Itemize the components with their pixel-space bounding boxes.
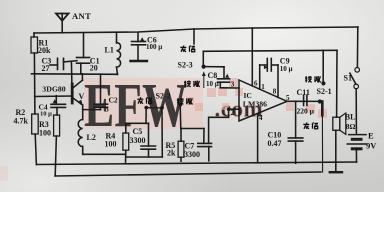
svg-text:E: E xyxy=(368,130,374,140)
svg-text:8Ω: 8Ω xyxy=(346,122,356,131)
wire R5 C7 top link xyxy=(181,128,204,130)
svg-text:0.47: 0.47 xyxy=(268,139,282,148)
svg-text:3: 3 xyxy=(105,105,109,114)
capacitor C11 xyxy=(304,95,307,105)
svg-text:20: 20 xyxy=(90,64,98,73)
op-amp U1 LM386 xyxy=(239,80,287,121)
transistor V 3DG80 xyxy=(72,80,83,105)
capacitor C10 xyxy=(288,101,303,163)
label transmit S2-3 xyxy=(180,46,195,52)
wire R3 to rail2 xyxy=(55,136,56,176)
wire S2-2 receive contact down xyxy=(179,105,182,129)
wire collector node horizontal xyxy=(32,73,118,76)
capacitor C5 xyxy=(141,123,156,157)
wire pin6 xyxy=(251,28,253,86)
capacitor C7 xyxy=(198,129,212,161)
label receive S2-3 xyxy=(184,81,200,87)
svg-text:LM386: LM386 xyxy=(243,99,267,108)
svg-text:L1: L1 xyxy=(105,46,114,55)
svg-text:5: 5 xyxy=(286,94,290,102)
capacitor C4 xyxy=(51,96,66,115)
svg-text:S2-2: S2-2 xyxy=(156,92,171,101)
wire pin8 xyxy=(277,65,279,97)
wire collector up xyxy=(81,74,83,80)
svg-text:C10: C10 xyxy=(268,130,282,139)
wire pin1 stub xyxy=(259,65,261,89)
inductor L1 xyxy=(117,33,121,75)
svg-text:C8: C8 xyxy=(208,71,218,80)
wire receive bus xyxy=(203,50,337,51)
wire bottom rail 1 xyxy=(36,162,356,165)
svg-text:100: 100 xyxy=(39,129,51,138)
wire left frame upper xyxy=(33,33,35,37)
svg-text:220 µ: 220 µ xyxy=(297,106,315,115)
svg-text:27: 27 xyxy=(42,64,50,73)
svg-text:2: 2 xyxy=(231,109,235,117)
inductor L2 xyxy=(78,110,83,155)
wire pin2 xyxy=(209,107,239,143)
svg-text:10 µ: 10 µ xyxy=(40,111,52,118)
wire emitter node xyxy=(83,105,101,110)
battery E xyxy=(347,135,366,163)
wire speaker top xyxy=(336,50,338,117)
antenna ANT xyxy=(56,14,69,33)
label receive S2-2 xyxy=(177,98,193,104)
svg-text:C2: C2 xyxy=(109,96,118,105)
svg-text:4.7k: 4.7k xyxy=(14,117,29,126)
svg-text:10 µ: 10 µ xyxy=(206,80,219,88)
wire L2 to R4 xyxy=(83,153,126,155)
label transmit S2-1 xyxy=(303,123,318,129)
switch S2-3 transmit stub xyxy=(193,29,195,44)
svg-text:8: 8 xyxy=(273,88,277,96)
svg-text:6: 6 xyxy=(254,80,258,88)
svg-text:BL: BL xyxy=(345,113,356,122)
wire C3 to base bar xyxy=(70,62,73,85)
wire pin4 xyxy=(257,113,259,162)
svg-text:2k: 2k xyxy=(167,149,176,158)
capacitor C6 with ground xyxy=(131,33,148,61)
capacitor C2 xyxy=(94,74,108,109)
svg-text:C11: C11 xyxy=(297,88,310,97)
switch S2-1 xyxy=(318,50,326,172)
svg-text:S2-3: S2-3 xyxy=(178,60,193,69)
capacitor C9 xyxy=(260,59,278,72)
svg-text:3300: 3300 xyxy=(130,136,146,145)
switch S1 xyxy=(350,27,360,134)
wire top supply rail xyxy=(34,27,358,33)
speaker BL xyxy=(330,113,346,172)
svg-text:ANT: ANT xyxy=(72,11,91,21)
svg-text:100 µ: 100 µ xyxy=(146,43,162,51)
svg-text:S2-1: S2-1 xyxy=(317,87,332,96)
resistor R5 xyxy=(178,129,184,162)
capacitor C8 xyxy=(206,67,239,88)
svg-text:1: 1 xyxy=(261,83,265,91)
wire pin5 output xyxy=(287,100,319,102)
switch S2-2 xyxy=(144,103,182,157)
svg-text:4: 4 xyxy=(259,114,263,122)
resistor R4 xyxy=(123,123,129,164)
WATERMARK xyxy=(0,70,327,181)
svg-text:3300: 3300 xyxy=(184,150,200,159)
capacitor C1 xyxy=(77,33,90,74)
resistor R1 xyxy=(31,37,38,53)
svg-text:100: 100 xyxy=(105,140,117,149)
svg-text:3DG80: 3DG80 xyxy=(42,85,65,94)
label receive S2-1 xyxy=(305,76,321,82)
switch S2-3 pole xyxy=(202,51,206,87)
resistor R3 xyxy=(54,115,60,136)
svg-text:C5: C5 xyxy=(133,127,143,136)
wire R4 C5 loop top xyxy=(126,122,149,124)
svg-text:V: V xyxy=(79,92,85,101)
label transmit S2-2 xyxy=(137,97,152,103)
svg-text:20k: 20k xyxy=(38,46,51,55)
wire base xyxy=(35,95,72,98)
svg-text:L2: L2 xyxy=(87,133,96,142)
wire bottom rail 2 xyxy=(55,172,321,176)
wire left frame lower xyxy=(35,134,36,165)
svg-text:9V: 9V xyxy=(366,140,377,150)
capacitor C3 xyxy=(50,58,77,69)
svg-text:10 µ: 10 µ xyxy=(280,65,293,73)
svg-text:S1: S1 xyxy=(344,74,352,83)
wire R4 C5 loop bottom xyxy=(126,156,163,158)
resistor R2 xyxy=(32,114,39,134)
wire R1 to base junction xyxy=(33,53,36,114)
svg-text:3: 3 xyxy=(231,80,235,88)
